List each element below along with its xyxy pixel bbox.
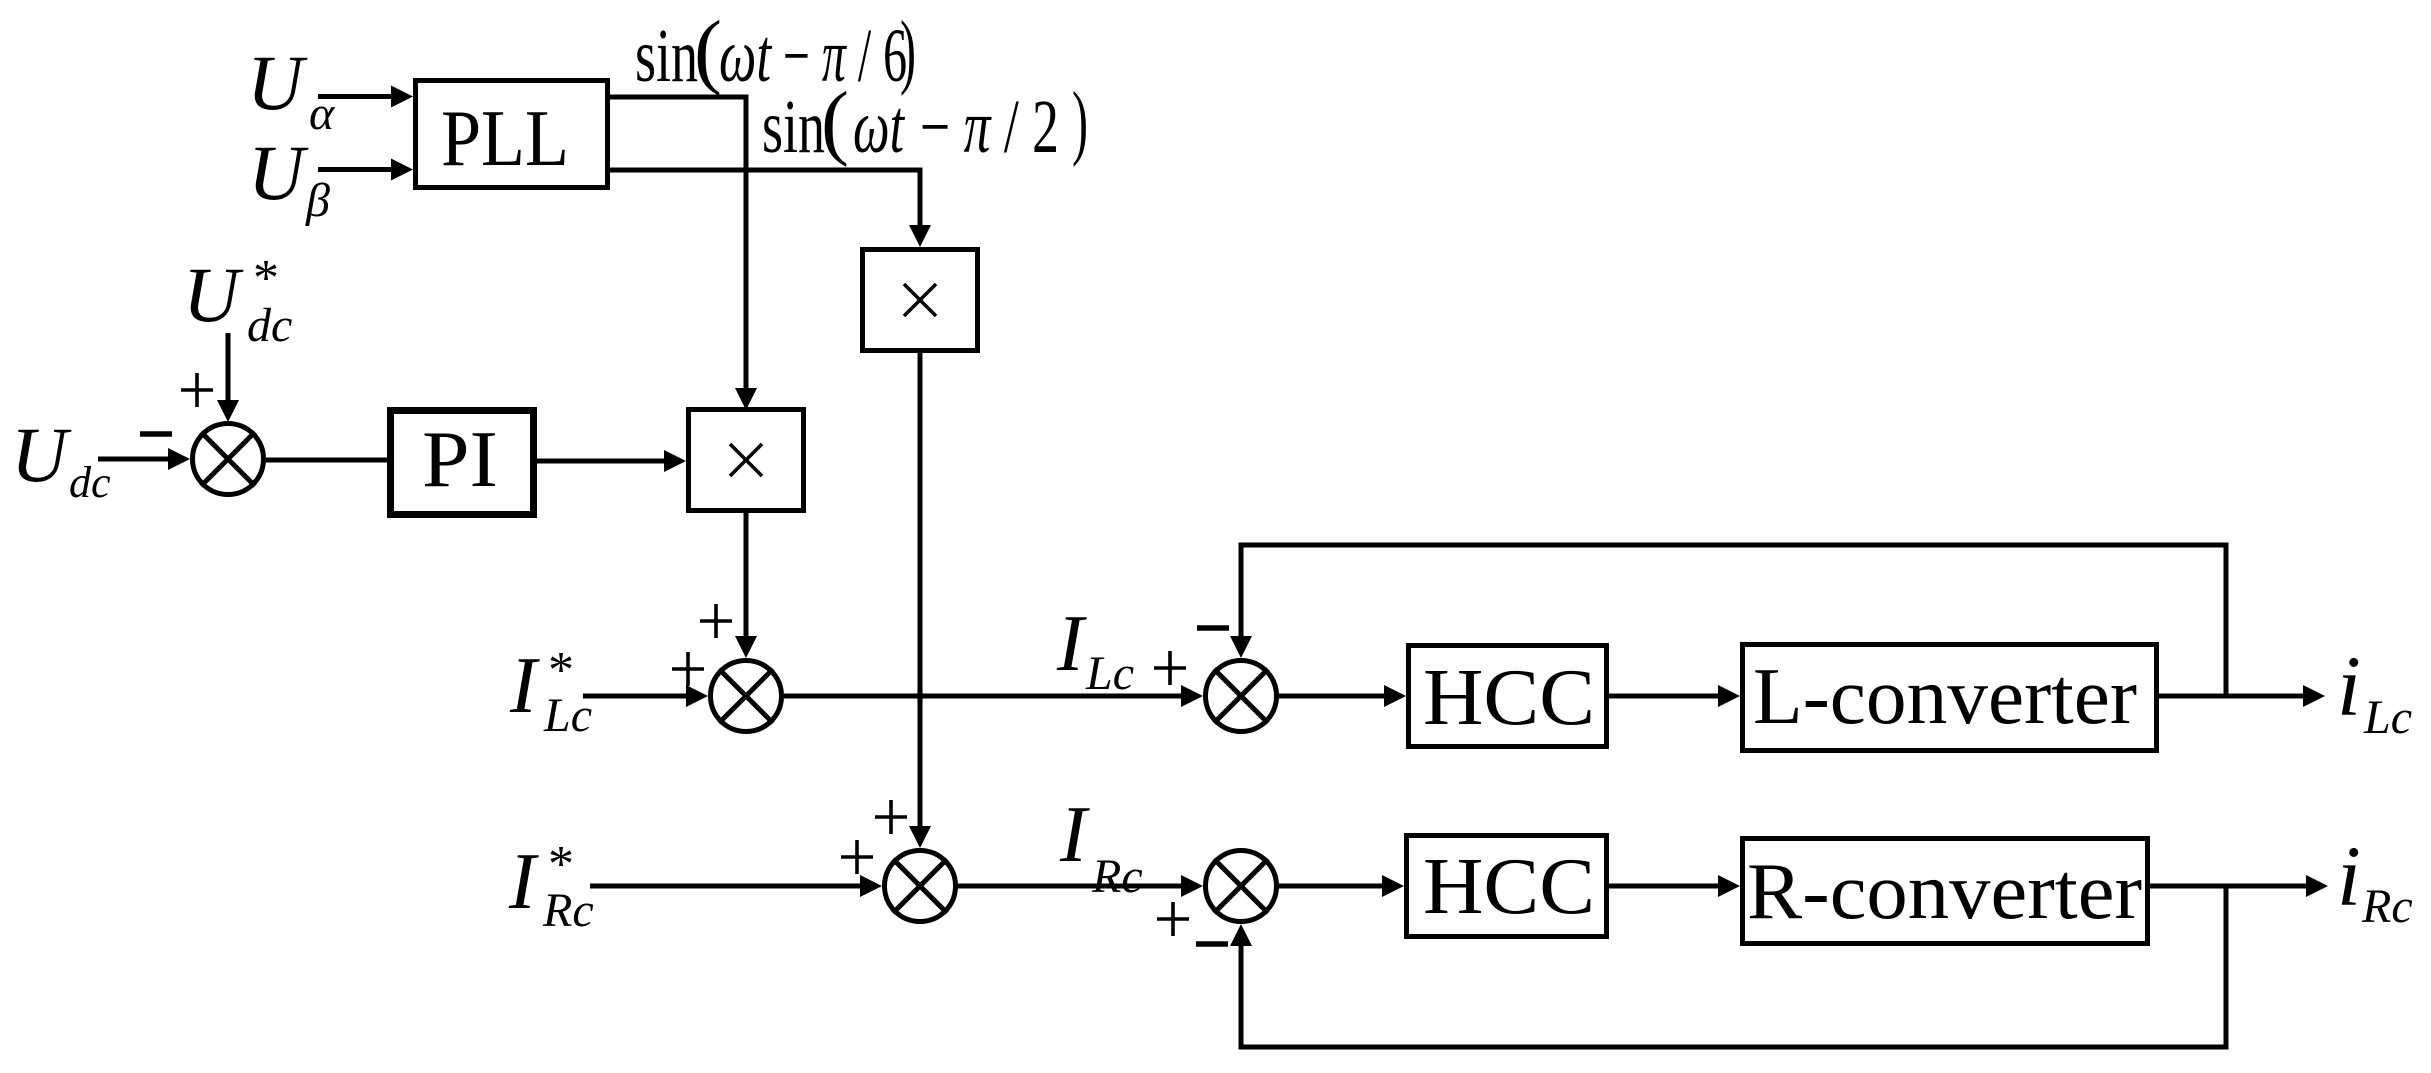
label sin(wt - pi/6) <box>635 4 916 98</box>
svg-text:): ) <box>900 4 916 97</box>
wire HCC to R-converter <box>1609 875 1740 897</box>
wire R-converter to output i_Rc <box>2150 875 2328 897</box>
plus sign left of S2 <box>672 652 704 686</box>
wire L-converter to output i_Lc <box>2159 685 2325 707</box>
node U_dc <box>11 411 111 507</box>
minus sign below S5 <box>1196 941 1228 947</box>
plus sign left of S3 <box>841 840 873 874</box>
plus sign left of S4 <box>1154 651 1186 685</box>
svg-text:U: U <box>11 411 72 498</box>
block PLL <box>416 81 608 188</box>
multiplier M1 <box>689 410 804 511</box>
wire L feedback from output to S4 <box>1230 543 2226 699</box>
svg-text:(: ( <box>821 75 849 168</box>
svg-text:− π / 2: − π / 2 <box>920 85 1059 169</box>
wire U_dc to S1 <box>98 448 190 470</box>
node U*_dc <box>183 250 292 352</box>
plus sign at S1 <box>181 373 213 407</box>
node i_Lc <box>2337 638 2412 744</box>
wire U_beta to PLL <box>318 159 413 181</box>
svg-text:U: U <box>183 251 244 338</box>
plus sign above S2 <box>700 604 732 638</box>
block L-converter <box>1743 645 2157 751</box>
svg-text:): ) <box>1072 75 1088 168</box>
wire HCC to L-converter <box>1609 685 1740 707</box>
svg-text:(: ( <box>694 4 722 97</box>
node U_beta <box>248 129 330 227</box>
plus sign above S3 <box>875 800 907 834</box>
svg-text:dc: dc <box>247 299 292 352</box>
svg-text:Lc: Lc <box>2363 691 2412 744</box>
plus sign below-left of S5 <box>1157 902 1189 936</box>
node I*_Lc <box>509 642 592 742</box>
wire S4 to HCC L <box>1279 685 1406 707</box>
wire R feedback from output to S5 <box>1230 884 2226 1050</box>
block HCC L row <box>1409 646 1607 747</box>
wire PLL out2 to multiplier M2 <box>610 168 931 248</box>
block HCC R row <box>1407 836 1607 937</box>
svg-text:ωt: ωt <box>853 85 905 169</box>
svg-text:HCC: HCC <box>1423 843 1595 931</box>
summing junction S4 <box>1206 661 1277 732</box>
svg-text:sin: sin <box>635 14 698 98</box>
svg-text:I: I <box>1059 791 1090 879</box>
node I_Lc <box>1056 600 1134 700</box>
node i_Rc <box>2337 828 2413 933</box>
svg-text:i: i <box>2337 828 2361 924</box>
summing junction S2 <box>711 661 782 732</box>
svg-text:dc: dc <box>69 458 111 507</box>
label sin(wt - pi/2) <box>762 75 1088 169</box>
svg-text:I: I <box>508 838 539 926</box>
svg-text:β: β <box>305 174 330 227</box>
node I*_Rc <box>508 836 594 937</box>
svg-text:PLL: PLL <box>441 95 569 183</box>
svg-text:R-converter: R-converter <box>1747 848 2142 936</box>
wire M2 to summing junction S3 <box>909 353 931 848</box>
svg-text:Rc: Rc <box>542 884 594 937</box>
minus sign above S4 <box>1197 625 1229 631</box>
svg-text:HCC: HCC <box>1423 654 1595 742</box>
svg-text:sin: sin <box>762 85 825 169</box>
wire U*_dc to summing junction S1 <box>217 333 239 422</box>
svg-text:i: i <box>2337 638 2361 734</box>
wire PLL out1 to multiplier M1 <box>610 95 757 411</box>
svg-text:Rc: Rc <box>1091 850 1143 903</box>
multiplier M2 <box>863 250 978 351</box>
summing junction S5 <box>1206 851 1277 922</box>
svg-text:U: U <box>247 39 308 126</box>
minus sign at S1 <box>140 431 172 437</box>
wire S5 to HCC R <box>1279 875 1404 897</box>
wire I*_Lc to S2 <box>583 685 708 707</box>
svg-text:Rc: Rc <box>2361 880 2413 933</box>
summing junction S1 <box>193 424 264 495</box>
summing junction S3 <box>885 851 956 922</box>
block PI <box>391 411 534 515</box>
svg-text:I: I <box>509 642 540 730</box>
svg-text:I: I <box>1056 600 1087 688</box>
svg-text:L-converter: L-converter <box>1753 653 2137 741</box>
svg-text:Lc: Lc <box>1085 647 1134 700</box>
svg-text:U: U <box>248 129 309 216</box>
node I_Rc <box>1059 791 1143 903</box>
wire I*_Rc to S3 <box>590 875 882 897</box>
wire S3 to summing junction S5 <box>958 875 1203 897</box>
wire S2 to summing junction S4 <box>784 685 1203 707</box>
block R-converter <box>1743 839 2148 944</box>
wire S1 to PI <box>266 458 389 463</box>
node U_alpha <box>247 39 335 140</box>
wire M1 to summing junction S2 <box>735 511 757 658</box>
wire PI to multiplier M1 <box>535 450 686 472</box>
svg-text:PI: PI <box>422 416 498 504</box>
wire U_alpha to PLL <box>318 86 413 108</box>
